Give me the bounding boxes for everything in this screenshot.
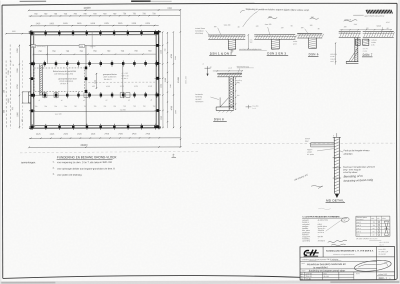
detail DSN 8 top dim line <box>213 70 243 72</box>
scan artifact streak top-center <box>131 0 150 2</box>
plan column row y95 with tie marks <box>32 94 34 97</box>
detail DSN 8 right dim chain <box>235 77 237 109</box>
handwritten scribbles under note <box>268 17 278 18</box>
detail DSN 8 pile axis symbol <box>207 66 209 75</box>
left top mini chain <box>6 33 31 35</box>
detail DSN 7 slab <box>339 31 361 33</box>
room tag box right <box>79 45 85 48</box>
company logo dH <box>304 250 309 255</box>
plan bottom wall column dots <box>31 126 33 129</box>
detail DSN 6 slab <box>297 32 322 34</box>
right dim chain x173.6 <box>172 32 174 128</box>
MD detail column cross dashes <box>333 157 341 159</box>
detail DSN 2 en 3 slab <box>254 34 295 36</box>
top dimension chain bays <box>31 25 159 27</box>
detail DSN 7 left dim line <box>335 43 337 65</box>
bottom dimension chain fine <box>29 137 180 139</box>
plan interior vertical dim <box>95 73 97 89</box>
plan dashed line y82 right half <box>88 81 155 83</box>
title block stamp oval <box>354 259 392 274</box>
title block bottom grid <box>300 274 354 276</box>
detail DSN 8 support diagonal <box>220 97 229 107</box>
detail DSN 6 rib <box>308 38 310 48</box>
detail DSN 7 footing <box>346 60 358 62</box>
scan bottom edge shadow <box>0 280 400 284</box>
left dim chain x22.6 dashed <box>21 60 23 88</box>
plan center axis line <box>91 32 93 49</box>
detail DSN 7 precast boxes <box>356 39 360 45</box>
left door bracket <box>22 91 30 93</box>
plan interior dimension chain y54 <box>33 53 156 55</box>
plan left wall column dots <box>31 32 33 35</box>
room tag box left <box>31 45 36 48</box>
faint scribbles above info list <box>318 208 331 209</box>
detail DSN 8 slab <box>217 72 242 74</box>
MD detail top arm <box>311 142 335 144</box>
barcode block top right <box>366 10 368 14</box>
right dim chain x163 <box>162 32 164 128</box>
bottom dimension chain total <box>29 146 180 148</box>
detail DSN 7 L-wall <box>354 37 356 61</box>
plan hatched interior wall <box>39 64 41 95</box>
right dim chain x180.6 <box>179 10 181 147</box>
title block scale cell <box>377 275 395 277</box>
plan right wall column dots <box>156 31 158 34</box>
plan left wall <box>30 30 32 129</box>
sheet border frame <box>2 3 397 5</box>
left dim chain x10.4 <box>9 44 11 128</box>
plan top wall <box>29 31 161 33</box>
detail DSN 8 right mini symbol <box>246 106 252 108</box>
plan column row y63 beam line <box>33 62 156 64</box>
detail DSN 8 rib lattice <box>228 77 230 110</box>
detail DSN 7 diagonal braces <box>349 48 358 61</box>
MD detail top cap <box>333 136 341 138</box>
info list circled note <box>341 217 350 223</box>
left dim chain x6.3 <box>5 61 7 129</box>
MD detail bottom arrow <box>335 194 339 198</box>
plan column row y95 beam line <box>33 94 156 96</box>
plan vertical line x123 <box>122 65 124 95</box>
MD leader curve <box>340 151 343 152</box>
plan vertical line x68 in dashed zone <box>67 68 69 91</box>
left wall protrusion <box>28 91 31 93</box>
top dimension chain fine <box>29 15 180 17</box>
detail DSN 1 en 5 slab <box>208 34 245 36</box>
fold crease line right <box>192 142 395 145</box>
renvooi symbol column <box>384 221 388 235</box>
detail DSN 1 en 5 rib <box>227 39 229 49</box>
plan mid vertical beam line <box>85 45 87 125</box>
detail DSN 1 en 5 right dim <box>247 34 249 49</box>
title block column dividers <box>322 247 324 257</box>
detail DSN 8 footing <box>216 106 234 108</box>
MD detail column <box>333 137 335 193</box>
detail DSN 2 en 3 rib <box>270 39 272 49</box>
detail DSN 1 en 5 pile axis <box>231 49 233 53</box>
plan wall inner hatch bands <box>31 34 159 36</box>
detail DSN 8 ground hatch <box>218 111 220 113</box>
title block outer frame <box>300 246 395 279</box>
scan right edge shade <box>399 0 400 283</box>
plan bottom wall <box>29 127 161 129</box>
plan column row y63 with tie marks <box>32 62 34 65</box>
plan mid vertical columns <box>85 66 87 69</box>
top dimension chain total <box>29 9 180 11</box>
right dim chain x167.6 <box>166 32 168 128</box>
MD small mark <box>311 185 323 187</box>
plan lower interior line <box>33 110 156 112</box>
plan right wall <box>158 30 160 129</box>
renvooi table frame <box>356 216 390 236</box>
plan interior line under top strip <box>33 44 156 46</box>
plan vertical line x47.6 <box>46 46 48 64</box>
MD detail top ticks <box>336 133 338 137</box>
info list leader arrow <box>326 220 341 231</box>
scan artifact streak top-left <box>20 0 46 2</box>
fold crease line left <box>20 151 200 153</box>
signature scribble <box>328 240 347 243</box>
detail DSN 7 top dim chain <box>340 29 392 31</box>
plan dashed region (pile zone) <box>34 68 84 92</box>
left dim chain x19.5 <box>18 44 20 128</box>
plan pedestal rects row y95 <box>43 93 47 98</box>
title block row dividers <box>300 256 394 258</box>
scan left edge shade <box>0 1 1 284</box>
plan top wall column dots <box>31 32 33 35</box>
